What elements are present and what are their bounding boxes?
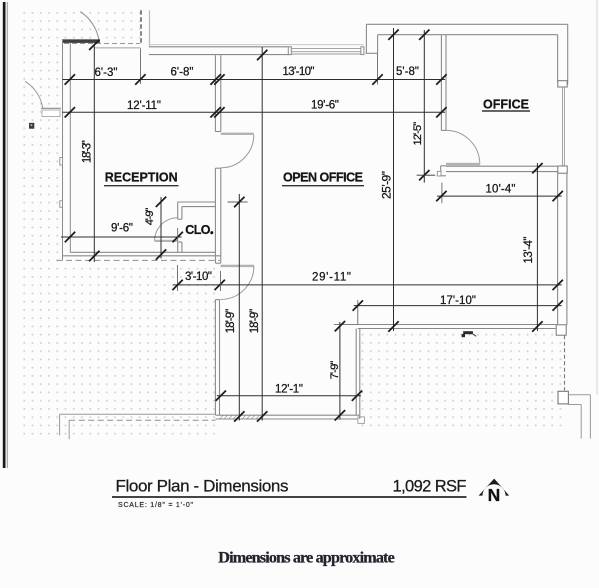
door threshold mark on south wall: [463, 331, 473, 334]
page border inner gray line: [6, 2, 8, 468]
office door leaf: [446, 163, 480, 166]
svg-text:6'-3": 6'-3": [95, 67, 118, 79]
svg-text:1,092 RSF: 1,092 RSF: [393, 478, 467, 496]
svg-text:5'-8": 5'-8": [396, 66, 419, 78]
tick 18'-3" bottom: [89, 251, 99, 261]
wall open office north outer line: [149, 46, 288, 48]
dimension line 18'-9" second: [261, 47, 263, 421]
tick row1 wall double: [210, 74, 220, 84]
wall divider mid segment: [214, 168, 216, 263]
entry opening inner line: [95, 47, 141, 49]
wall furring notch lower on west wall: [60, 201, 63, 208]
wall open office north inner line: [149, 54, 289, 56]
svg-text:3'-10": 3'-10": [185, 271, 212, 283]
entry door swing arc: [80, 12, 99, 40]
wall wing east pair: [355, 329, 357, 416]
tick 3'-10" right at wall: [215, 280, 225, 290]
tick 29'-11" right: [553, 280, 563, 290]
tick 10'-4" left: [436, 191, 446, 201]
svg-text:4'-9": 4'-9": [144, 208, 156, 226]
north arrow: [479, 479, 510, 496]
dimension line 4'-9": [160, 197, 162, 259]
east mullion block mid: [558, 166, 567, 173]
extension bar 12'-5" bottom: [417, 174, 436, 176]
svg-text:9'-6": 9'-6": [111, 223, 133, 235]
dimension line 7'-9": [339, 322, 341, 420]
column block bottom-right: [558, 391, 568, 404]
tick row1 right: [436, 74, 446, 84]
wall stub dashed vertical at notch: [140, 10, 142, 44]
tick 25'-9" bottom: [388, 321, 398, 331]
tick 7'-9" top: [335, 321, 345, 331]
adjacent wall stub vertical left: [59, 414, 61, 435]
svg-text:10'-4": 10'-4": [486, 184, 516, 196]
svg-text:29'-11": 29'-11": [312, 272, 351, 284]
extension line 9'-6" right: [177, 228, 179, 241]
tick row2 wall double: [210, 107, 220, 117]
tick 17'-10" left: [353, 300, 363, 310]
office door jamb: [440, 166, 442, 176]
hidden wall dashed vertical bottom-right: [564, 335, 566, 390]
svg-text:19'-6": 19'-6": [311, 99, 339, 111]
svg-text:18'-3": 18'-3": [81, 140, 93, 163]
window east glazing: [562, 87, 564, 166]
corridor dashed wall line: [57, 259, 221, 261]
tick 18'-3" top: [89, 40, 99, 50]
reception door leaf: [221, 133, 254, 135]
keynote square marker: [29, 123, 34, 129]
wall step up at window end: [365, 24, 367, 53]
tick 12'-5" top: [419, 30, 429, 40]
wall reception north (dark band): [62, 40, 99, 43]
corridor door threshold: [41, 107, 61, 109]
wall hatched segment: [219, 415, 264, 419]
svg-text:12'-5": 12'-5": [412, 122, 424, 146]
wall closet west upper jamb: [177, 202, 179, 219]
tick 17'-10" right: [553, 300, 563, 310]
wall open office south pair: [358, 324, 557, 326]
tick 10'-4" right: [553, 191, 563, 201]
svg-text:17'-10": 17'-10": [440, 295, 476, 307]
wall divider upper segment: [214, 55, 216, 131]
extension line 3'-10" left: [177, 265, 179, 291]
wing south-east notch: [358, 417, 365, 424]
svg-text:25'-9": 25'-9": [379, 171, 393, 199]
open office entry door swing arc: [220, 266, 254, 300]
dimension line 12'-1": [217, 395, 361, 397]
svg-text:13'-10": 13'-10": [283, 66, 315, 78]
adjacent wall corner outer bottom-right: [568, 394, 590, 396]
tick row2 right: [436, 107, 446, 117]
extension line 7'-9" top: [334, 324, 358, 326]
svg-text:CLO.: CLO.: [185, 223, 213, 237]
tick 9'-6" right: [173, 232, 183, 242]
extension bar 18'-9" first top: [228, 201, 248, 203]
page border black line left edge: [3, 2, 6, 468]
svg-text:N: N: [488, 485, 501, 505]
dimension line 12'-5": [423, 30, 425, 183]
tick 3'-10" left: [172, 280, 182, 290]
adjacent wall stub vertical 2: [68, 420, 70, 439]
wall office west pair: [440, 35, 442, 131]
east corner block bottom: [556, 325, 566, 335]
tick row1 left: [65, 74, 75, 84]
wall east outer upper: [567, 24, 569, 84]
wall closet north pair: [178, 201, 216, 203]
svg-text:18'-9": 18'-9": [249, 309, 261, 334]
adjacent wall corner inner bottom-right: [568, 404, 581, 406]
svg-text:SCALE: 1/8" = 1'-0": SCALE: 1/8" = 1'-0": [118, 502, 194, 509]
wall closet west lower jamb: [177, 242, 179, 252]
svg-text:OPEN OFFICE: OPEN OFFICE: [283, 171, 363, 185]
tick 25'-9" top: [388, 30, 398, 40]
open office entry door leaf: [221, 265, 255, 267]
reception door swing arc: [221, 135, 254, 168]
window north glazing lines: [291, 48, 361, 50]
office door swing arc: [446, 130, 480, 164]
corridor door swing arc top-left: [25, 81, 43, 108]
wall east inner upper: [557, 35, 559, 82]
svg-text:18'-9": 18'-9": [225, 309, 237, 334]
tick 4'-9" top: [156, 197, 166, 207]
tick row2 left: [65, 107, 75, 117]
closet door swing arc: [155, 218, 178, 241]
extension line 17'-10" left: [357, 300, 359, 325]
faint sheet line right edge: [596, 0, 598, 395]
svg-text:13'-4": 13'-4": [523, 237, 535, 264]
stipple dot field left margin: [23, 6, 63, 437]
dimension line 25'-9": [393, 28, 395, 331]
tick 12'-1" left: [216, 391, 226, 401]
wall office south pair: [446, 165, 558, 167]
dimension line row1: [62, 79, 445, 81]
tick 18'-9" first top: [234, 197, 244, 207]
wall reception south pair: [70, 251, 215, 253]
wall reception west outer line: [62, 40, 64, 261]
dimension line 10'-4": [437, 195, 562, 197]
wall open office north upper faint line: [149, 44, 364, 46]
window north left jamb: [288, 47, 291, 55]
tick 12'-1" right: [352, 391, 362, 401]
svg-text:Dimensions are approximate: Dimensions are approximate: [218, 549, 395, 567]
stipple dot field below reception: [63, 262, 216, 437]
svg-text:RECEPTION: RECEPTION: [105, 171, 178, 185]
svg-text:12'-1": 12'-1": [275, 384, 303, 396]
tick 18'-9" first bottom: [234, 411, 244, 421]
office south wall end step: [437, 171, 441, 176]
stipple dot field entry nook: [63, 6, 141, 40]
svg-text:6'-8": 6'-8": [171, 67, 194, 79]
dimension line 18'-9" first: [238, 194, 240, 421]
east mullion block upper: [558, 81, 567, 87]
dimension line 9'-6": [61, 236, 182, 238]
tick 18'-9" second bottom: [257, 411, 267, 421]
extension line x140: [139, 49, 141, 85]
tick 4'-9" bottom: [156, 249, 166, 259]
wall north-east outer line: [366, 23, 567, 25]
adjacent wall solid line bottom-left: [60, 413, 216, 415]
window north right jamb: [361, 47, 364, 55]
svg-text:OFFICE: OFFICE: [483, 98, 529, 112]
dimension line 3'-10" / 29'-11": [173, 284, 562, 286]
tick 7'-9" bottom: [335, 410, 345, 420]
wall wing west segment: [214, 300, 216, 416]
wall east lower pair: [557, 173, 559, 325]
entry opening dashed header line: [64, 43, 140, 45]
svg-text:12'-11": 12'-11": [127, 100, 161, 112]
tick 12'-5" bottom: [419, 170, 429, 180]
closet door leaf: [155, 240, 178, 242]
adjacent wall dashed line bottom-left: [69, 419, 215, 421]
wall wing south pair: [215, 414, 359, 416]
title underline rule: [112, 496, 467, 498]
extension line x377: [377, 54, 379, 85]
dimension line 17'-10": [354, 305, 562, 307]
tick 18'-9" second top: [257, 50, 267, 60]
tick row1 x140: [135, 74, 145, 84]
wall furring notch upper on west wall: [60, 158, 63, 166]
wall reception west inner line: [69, 42, 71, 252]
dimension line 18'-3": [93, 44, 95, 262]
extension line 10'-4" left: [441, 183, 443, 204]
stipple dot field bottom right: [360, 332, 566, 434]
tick row1 x377: [372, 74, 382, 84]
tick 9'-6" left: [65, 232, 75, 242]
svg-text:7'-9": 7'-9": [329, 361, 341, 380]
tick 13'-4" top: [532, 163, 542, 173]
dimension line 13'-4": [536, 163, 538, 331]
tick 13'-4" bottom: [532, 321, 542, 331]
dimension line row2: [62, 111, 445, 113]
wall stub light vertical at notch: [149, 10, 151, 47]
svg-text:Floor Plan - Dimensions: Floor Plan - Dimensions: [116, 477, 289, 496]
wall north-east inner line: [378, 34, 558, 36]
